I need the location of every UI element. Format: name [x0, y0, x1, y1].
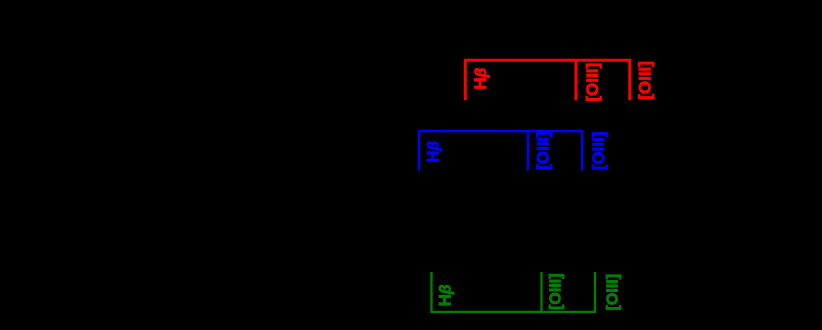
blue middle tick	[527, 131, 529, 171]
svg-text:[OIII]: [OIII]	[604, 274, 621, 310]
svg-text:[OIII]: [OIII]	[589, 132, 608, 171]
svg-text:Hβ: Hβ	[471, 67, 490, 89]
svg-text:Hβ: Hβ	[424, 141, 443, 163]
svg-text:[OIII]: [OIII]	[583, 63, 602, 102]
svg-text:[OIII]: [OIII]	[548, 273, 565, 309]
green middle tick	[540, 272, 542, 312]
svg-text:[OIII]: [OIII]	[636, 61, 655, 100]
svg-text:[OIII]: [OIII]	[534, 131, 553, 170]
blue bracket (redshift 2)	[419, 131, 582, 171]
red bracket (Hbeta to [OIII]5007, redshift 1)	[465, 60, 630, 100]
green bracket (redshift 3, bar below)	[432, 272, 596, 312]
svg-text:Hβ: Hβ	[436, 284, 455, 306]
red middle tick ([OIII]4959)	[575, 60, 578, 100]
